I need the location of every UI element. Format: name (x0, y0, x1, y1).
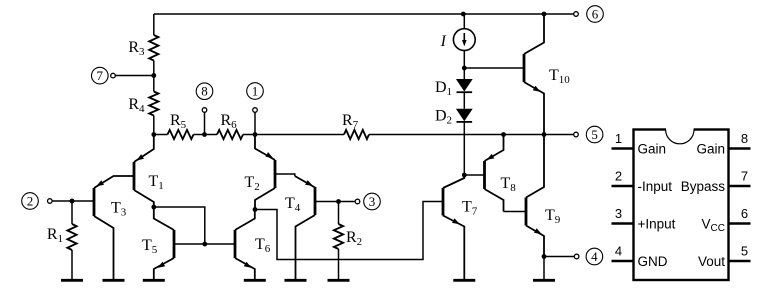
IC pin 3 stub (612, 222, 634, 225)
transistor T2 emitter (255, 135, 275, 161)
IC package body with notch (634, 127, 729, 280)
node T1-T5 collector junction (151, 205, 156, 210)
label R7 (342, 112, 359, 131)
wire R7 to pin5 terminal (369, 134, 574, 136)
wire junction to T7 base run (255, 202, 443, 260)
node T4 base / R2 / pin3 junction (336, 199, 341, 204)
label D1 (435, 79, 452, 98)
svg-text:+Input: +Input (638, 217, 676, 232)
wire R4 bottom lead (153, 116, 155, 135)
wire T10 base (464, 67, 524, 69)
transistor T3 bar (93, 188, 96, 216)
label R4 (128, 96, 145, 115)
svg-text:T5: T5 (142, 237, 158, 256)
node bias to T10 base (462, 66, 467, 71)
IC pin 8 number (741, 131, 748, 146)
wire T5-T6 base link (174, 243, 235, 245)
svg-text:7: 7 (97, 68, 104, 83)
resistor R7 (344, 130, 369, 139)
label T5 (142, 237, 158, 256)
node output junction T9/T10 (542, 132, 547, 137)
transistor T3 emitter (94, 176, 134, 188)
label R3 (128, 39, 145, 58)
wire pin7 to R3/R4 junction (115, 75, 154, 77)
terminal pin 1 (247, 83, 264, 113)
terminal pin 3 (355, 193, 380, 210)
svg-text:3: 3 (369, 194, 376, 209)
transistor T4 bar (314, 187, 317, 215)
node mirror base junction (202, 242, 207, 247)
IC label Gain pin1 (638, 142, 667, 157)
IC label Vout pin5 (698, 254, 725, 269)
label T3 (111, 200, 127, 219)
svg-text:Vout: Vout (698, 254, 725, 269)
transistor T10 collector (524, 14, 544, 54)
wire R5-R6 segment (194, 134, 218, 136)
node pin2-R1-T3 junction (70, 199, 75, 204)
diode D2 (456, 109, 473, 122)
transistor T7 emitter (443, 216, 464, 280)
terminal pin 5 (574, 126, 603, 143)
svg-text:1: 1 (252, 83, 259, 98)
wire R6 to R7 segment (243, 134, 344, 136)
IC pin 2 stub (612, 185, 634, 188)
wire T9 emitter to ground (543, 257, 545, 280)
transistor T6 collector (235, 210, 255, 231)
svg-text:I: I (440, 33, 447, 50)
transistor T6 bar (234, 230, 237, 258)
terminal pin 2 (22, 193, 52, 210)
IC pin 4 number (615, 244, 622, 259)
resistor R6 (217, 130, 243, 139)
ground under T7 (453, 279, 475, 282)
svg-text:T9: T9 (545, 207, 561, 226)
label T9 (545, 207, 561, 226)
svg-text:T1: T1 (149, 173, 164, 192)
svg-text:7: 7 (741, 169, 748, 184)
svg-text:1: 1 (615, 131, 622, 146)
IC label +Input pin3 (638, 217, 676, 232)
terminal pin 6 (574, 6, 604, 23)
node R4/R5/T1 junction (151, 132, 156, 137)
wire junction to pin3 (339, 201, 356, 203)
transistor T5 bar (173, 230, 176, 258)
node top rail to current source (461, 12, 466, 17)
wire pin8 drop (204, 112, 206, 134)
wire rail to current source (463, 14, 465, 29)
transistor T10 emitter (524, 82, 544, 135)
transistor T10 bar (523, 54, 526, 82)
label D2 (435, 108, 452, 127)
transistor T2 collector (255, 188, 275, 210)
node R5-R6-pin8 junction (202, 132, 207, 137)
IC label -Input pin2 (638, 179, 673, 194)
IC pin 7 number (741, 169, 748, 184)
svg-text:R4: R4 (128, 96, 145, 115)
IC label Gain pin8 (696, 142, 725, 157)
transistor T3 collector (94, 216, 114, 279)
label R1 (47, 226, 63, 245)
node R3-R4-pin7 junction (151, 73, 156, 78)
label R2 (346, 229, 362, 248)
svg-text:T10: T10 (549, 67, 570, 86)
ground under T3 (103, 279, 125, 282)
svg-text:D2: D2 (435, 108, 452, 127)
svg-text:T3: T3 (111, 200, 127, 219)
svg-text:-Input: -Input (638, 179, 673, 194)
transistor T1 collector (134, 190, 154, 207)
wire mid rail R5 left lead (154, 134, 168, 136)
svg-text:6: 6 (741, 206, 748, 221)
node T8 collector junction on output rail (501, 132, 506, 137)
wire pin2 to T3 base (52, 200, 94, 202)
svg-text:4: 4 (615, 244, 622, 259)
wire T1 collector to mirror base (154, 207, 205, 244)
resistor R3 (149, 14, 158, 61)
IC pin 3 number (615, 206, 622, 221)
wire D2 down across output rail to T7 collector node (463, 122, 465, 175)
IC pin 8 stub (729, 147, 751, 150)
svg-text:2: 2 (615, 169, 622, 184)
transistor T4 collector (296, 215, 316, 279)
diode D1 (456, 79, 473, 92)
transistor T4 base wire (315, 201, 339, 203)
transistor T8 emitter (485, 135, 504, 162)
IC pin 1 stub (612, 147, 634, 150)
IC pin 2 number (615, 169, 622, 184)
transistor T2 base wire (275, 174, 295, 176)
wire top supply rail (154, 13, 574, 15)
svg-text:8: 8 (201, 84, 208, 99)
transistor T9 emitter (526, 226, 544, 257)
label R6 (221, 112, 238, 131)
node T10 collector on rail (542, 12, 547, 17)
node T9 emitter / pin4 junction (542, 254, 547, 259)
IC label GND pin4 (638, 254, 668, 269)
label R5 (170, 112, 187, 131)
wire R3-R4 column segment with tap to pin7 (153, 61, 155, 92)
transistor T5 emitter (154, 258, 174, 279)
transistor T9 bar (525, 198, 528, 226)
IC pin 6 number (741, 206, 748, 221)
transistor T9 collector (526, 135, 544, 198)
transistor T6 emitter (235, 258, 255, 279)
label T4 (285, 195, 301, 214)
terminal pin 7 (92, 67, 116, 84)
svg-text:T8: T8 (501, 175, 517, 194)
label T1 (149, 173, 164, 192)
svg-text:2: 2 (27, 193, 34, 208)
terminal pin 8 (196, 83, 213, 112)
node T7 collector / D2 / T8 base junction (462, 173, 467, 178)
svg-text:4: 4 (591, 249, 598, 264)
label T8 (501, 175, 517, 194)
ground under R1 (61, 279, 83, 282)
transistor T5 collector (154, 207, 174, 230)
IC pin 6 stub (729, 222, 751, 225)
svg-text:5: 5 (591, 127, 598, 142)
label T7 (462, 199, 478, 218)
IC label Vcc pin6 (702, 217, 725, 235)
ground under T4 (285, 279, 307, 282)
wire T8 to T9 base (504, 211, 527, 213)
IC pin 4 stub (612, 260, 634, 263)
svg-text:R3: R3 (128, 39, 145, 58)
node T2-T6-T7 junction (253, 207, 258, 212)
transistor T7 collector (443, 175, 464, 188)
svg-text:3: 3 (615, 206, 622, 221)
svg-text:T2: T2 (245, 174, 260, 193)
transistor T1 bar (133, 162, 136, 190)
IC label Bypass pin7 (681, 179, 726, 194)
IC pin 5 number (741, 244, 748, 259)
svg-text:T6: T6 (255, 236, 271, 255)
transistor T8 bar (483, 161, 486, 189)
svg-text:Bypass: Bypass (681, 179, 726, 194)
svg-text:R1: R1 (47, 226, 63, 245)
label T6 (255, 236, 271, 255)
svg-text:D1: D1 (435, 79, 452, 98)
transistor T8 collector (485, 189, 504, 212)
ground under T9 (533, 279, 555, 282)
label T10 (549, 67, 570, 86)
wire pin1 drop (254, 112, 256, 134)
resistor R4 (149, 92, 158, 116)
resistor R1 (67, 201, 76, 279)
svg-text:R2: R2 (346, 229, 362, 248)
resistor R2 (334, 202, 343, 280)
svg-text:GND: GND (638, 254, 668, 269)
transistor T1 emitter (134, 135, 154, 163)
wire D1 to D2 (463, 92, 465, 109)
resistor R5 (168, 130, 194, 139)
IC pin 5 stub (729, 260, 751, 263)
svg-text:R5: R5 (170, 112, 187, 131)
wire T8 base (464, 174, 484, 176)
IC pin 1 number (615, 131, 622, 146)
transistor T4 emitter (295, 176, 315, 188)
svg-text:6: 6 (592, 6, 599, 21)
svg-text:R6: R6 (221, 112, 238, 131)
svg-text:R7: R7 (342, 112, 359, 131)
ground under T6 (244, 279, 266, 282)
svg-text:Gain: Gain (638, 142, 667, 157)
label T2 (245, 174, 260, 193)
svg-text:Gain: Gain (696, 142, 725, 157)
current source I circle (453, 29, 475, 51)
svg-text:T7: T7 (462, 199, 478, 218)
transistor T2 bar (274, 160, 277, 188)
wire current source to D1 (463, 51, 465, 80)
ground under T5 (143, 279, 165, 282)
svg-text:5: 5 (741, 244, 748, 259)
node R6-pin1-T2 junction (253, 132, 258, 137)
IC pin 7 stub (729, 185, 751, 188)
svg-text:T4: T4 (285, 195, 301, 214)
label I (440, 33, 447, 50)
ground under R2 (328, 279, 350, 282)
svg-text:8: 8 (741, 131, 748, 146)
wire to pin4 terminal (544, 256, 574, 258)
terminal pin 4 (574, 248, 602, 265)
transistor T7 bar (442, 188, 445, 216)
